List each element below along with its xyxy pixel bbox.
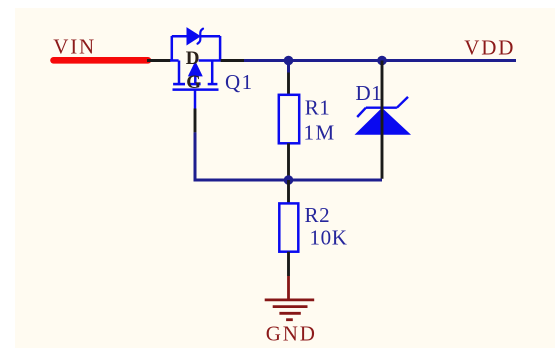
wire gate node (navy L) (195, 132, 289, 180)
svg-text:R1: R1 (305, 96, 331, 120)
wire VIN to Q1 source (147, 59, 171, 62)
ground GND symbol (265, 300, 315, 320)
source stub (178, 61, 181, 84)
channel dash left (173, 83, 185, 86)
svg-text:10K: 10K (310, 226, 348, 250)
diode D1 (zener) (357, 97, 410, 134)
body-diode loop top wire (172, 35, 188, 38)
transistor Q1 (170, 29, 221, 109)
channel dash right (208, 83, 218, 86)
resistor R2 (279, 203, 298, 251)
wire feedback node to D1 anode (289, 179, 383, 182)
wire R1 bottom lead (287, 143, 290, 178)
cathode bar (366, 106, 397, 108)
pin lead drain row (199, 59, 221, 62)
anode triangle (357, 109, 410, 134)
body-diode loop left vertical (171, 36, 174, 61)
junction dot feedback node (284, 175, 294, 185)
body diode curved cathode (198, 29, 204, 44)
svg-text:R2: R2 (305, 203, 331, 227)
pin lead source row (170, 59, 179, 62)
channel dash middle (190, 83, 201, 86)
cathode tick left (357, 108, 366, 117)
wire R1 top lead navy stub (287, 61, 290, 73)
cathode tick right (397, 97, 408, 108)
wire VIN thick red (54, 57, 149, 64)
svg-text:D: D (186, 48, 200, 69)
body-diode loop right vertical (219, 36, 222, 61)
svg-text:G: G (186, 72, 201, 93)
wire Q1 drain to rail (black stub) (221, 59, 244, 62)
svg-text:VIN: VIN (53, 35, 96, 59)
drain stub (211, 61, 214, 84)
gate plate (173, 88, 219, 91)
junction dot rail/R1 (284, 56, 294, 66)
wire R1 top lead (287, 73, 290, 96)
wire D1 branch vertical (381, 61, 384, 179)
resistor R1 (279, 95, 299, 144)
junction dot rail/D1 (377, 56, 387, 66)
wire R2 bottom lead (287, 252, 290, 276)
body diode triangle (187, 29, 199, 44)
svg-text:Q1: Q1 (225, 70, 254, 94)
substrate arrow head (189, 62, 202, 75)
svg-text:GND: GND (266, 322, 317, 346)
wire VDD rail (244, 59, 516, 62)
substrate arrow shaft (194, 73, 197, 84)
wire R2 top lead (287, 180, 290, 204)
svg-text:D1: D1 (356, 81, 383, 105)
gate pin lead (194, 90, 197, 109)
svg-text:1M: 1M (304, 121, 336, 145)
wire GND lead (dark red) (287, 276, 290, 300)
wire Q1 gate lead black segment (194, 109, 197, 133)
svg-text:VDD: VDD (464, 35, 515, 59)
